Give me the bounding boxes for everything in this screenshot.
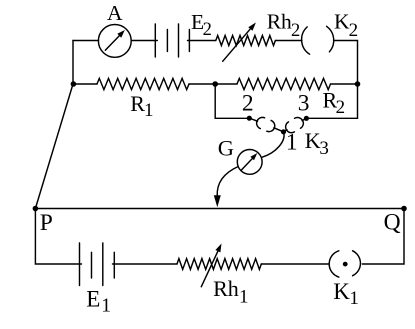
rheostat Rh2 arrow line	[223, 29, 251, 62]
svg-text:Q: Q	[384, 210, 401, 236]
svg-text:3: 3	[319, 138, 329, 159]
key K1 arcs	[329, 251, 360, 277]
svg-text:Rh: Rh	[267, 10, 292, 34]
wire	[188, 40, 216, 42]
resistor R1 zigzag	[97, 78, 189, 89]
Rh2 arrowhead	[248, 23, 256, 31]
svg-text:2: 2	[336, 97, 346, 118]
wire	[189, 83, 237, 85]
rheostat Rh2 zigzag	[216, 36, 276, 46]
svg-text:2: 2	[203, 20, 212, 40]
svg-text:1: 1	[144, 100, 154, 121]
wire	[331, 83, 358, 85]
svg-text:K: K	[334, 10, 350, 34]
wire curve node 1 to galvanometer	[262, 132, 284, 158]
svg-text:E: E	[86, 286, 100, 311]
wire	[73, 40, 99, 42]
wire	[261, 263, 329, 265]
svg-text:1: 1	[286, 130, 298, 156]
svg-text:Rh: Rh	[213, 276, 239, 301]
svg-text:2: 2	[349, 20, 359, 41]
wire	[73, 83, 97, 85]
svg-text:K: K	[333, 279, 350, 304]
svg-text:P: P	[40, 210, 53, 236]
terminal node 1	[281, 129, 286, 134]
svg-text:2: 2	[242, 90, 254, 116]
ammeter needle	[105, 34, 121, 50]
wire	[302, 118, 306, 120]
rheostat Rh1 zigzag	[177, 259, 261, 270]
ammeter A circle	[98, 25, 131, 58]
wire	[35, 209, 81, 265]
svg-text:G: G	[218, 136, 234, 161]
wire	[35, 84, 73, 209]
key K2 arcs	[302, 26, 334, 54]
wire	[216, 195, 218, 200]
junction node	[212, 81, 218, 87]
terminal node 3	[304, 116, 309, 121]
junction node	[355, 81, 361, 87]
key K3 left stub	[249, 118, 257, 121]
junction node	[71, 81, 77, 87]
wire	[275, 40, 302, 42]
battery E2	[155, 24, 189, 57]
galvanometer needle	[241, 156, 254, 170]
Rh1 arrowhead	[215, 244, 221, 253]
svg-text:1: 1	[239, 286, 249, 307]
svg-text:1: 1	[101, 296, 111, 317]
node P	[33, 206, 39, 212]
wire	[215, 84, 249, 118]
resistor R2 zigzag	[237, 78, 331, 89]
battery E1	[80, 243, 115, 286]
wire	[284, 130, 287, 132]
key K3 left gap arcs	[257, 117, 275, 131]
wire	[274, 128, 284, 132]
wire	[306, 41, 357, 119]
wire	[131, 40, 157, 42]
svg-text:A: A	[107, 1, 123, 25]
galvanometer needle arrowhead	[250, 153, 257, 160]
rheostat Rh1 arrow line	[201, 250, 218, 286]
wire curve galvanometer to jockey	[217, 167, 238, 197]
terminal node 2	[247, 116, 252, 121]
galvanometer G circle	[237, 150, 262, 175]
wire	[72, 41, 74, 85]
key K3 right gap arcs	[286, 117, 304, 132]
svg-text:3: 3	[298, 90, 310, 116]
svg-text:R: R	[130, 91, 145, 116]
jockey arrowhead	[214, 195, 221, 207]
svg-text:K: K	[305, 128, 321, 153]
wire P to Q	[35, 209, 404, 265]
svg-text:2: 2	[291, 21, 300, 41]
ammeter needle arrowhead	[117, 30, 125, 38]
node Q	[401, 206, 407, 212]
svg-text:1: 1	[349, 288, 359, 309]
key K1 dot	[343, 262, 348, 267]
wire	[113, 263, 178, 265]
